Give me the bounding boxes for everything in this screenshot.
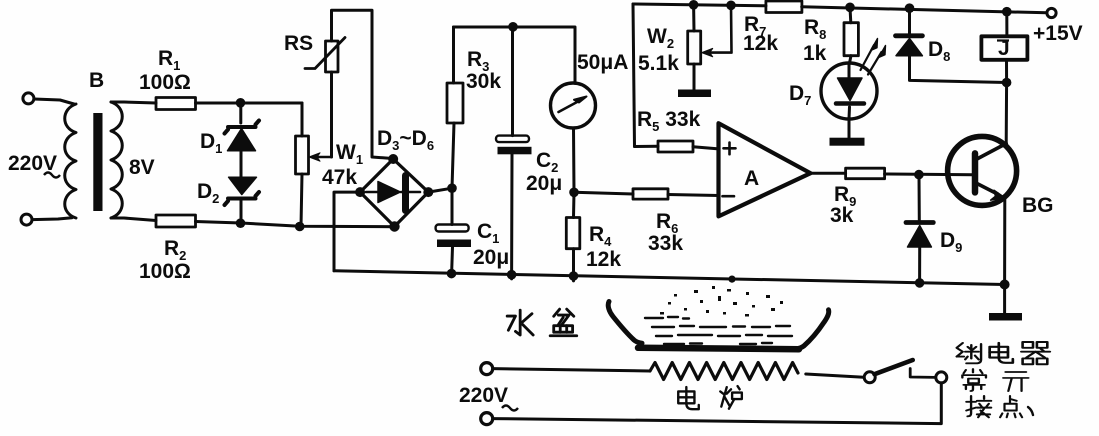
node W2 wiper top [726,1,736,11]
wire R8 to LED D7 [850,56,852,63]
comma mark [1028,407,1033,415]
opamp plus sign [724,143,736,155]
meter 50uA body [551,83,596,128]
node D9/rail [915,278,925,288]
resistor R4 [566,218,580,249]
wire W2 top lead [692,5,695,31]
W1 wiper arrow [309,153,332,161]
node W1 bottom [295,222,305,232]
terminal 220V heater bottom [481,413,493,425]
wire rail left corner down to R5 [633,4,635,147]
W2 wiper arrow [702,5,732,57]
diode D8 (cathode up) [896,36,923,56]
BG base bar [972,153,979,192]
svg-text:1k: 1k [803,42,827,65]
node R8 top [845,3,855,13]
hanzi pen (basin) [550,309,577,336]
resistor R1 [156,98,196,110]
wire secondary top to R1 [111,102,156,103]
potentiometer W1 body [296,136,309,174]
wire R4 bottom [572,249,575,281]
svg-text:BG: BG [1022,194,1054,217]
opamp minus sign [723,195,735,198]
hanzi dianr (dot) [1000,396,1022,417]
wire DC+ to C1 [451,188,454,224]
node D2 bottom [236,218,246,228]
svg-text:100Ω: 100Ω [139,260,191,283]
node meter/R4/R6 [569,188,579,198]
svg-text:5.1k: 5.1k [638,52,679,75]
svg-text:50μA: 50μA [577,51,628,74]
LED D7 body circle [821,63,877,119]
hanzi dian [990,343,1013,363]
wire C2 bottom lead [510,154,513,279]
wire bridge right corner to DC+ node [428,188,452,192]
relay contact lever [875,360,913,374]
top DC bus wire [454,27,576,83]
node C2/rail [507,270,517,280]
ground symbol D7 [830,138,865,146]
svg-text:220V: 220V [459,384,508,407]
wire rail to ground [1003,285,1006,315]
svg-text:8V: 8V [129,156,155,179]
water basin outline [608,302,829,350]
hanzi chang [962,369,986,391]
wire C1 bottom [452,247,453,277]
diode D9 (cathode up) [906,223,933,248]
svg-text:20μ: 20μ [473,246,509,269]
water surface dashes [645,317,792,344]
label 220V left [8,152,60,178]
wire opamp output to R9 [811,172,846,175]
terminal 220V top-left [23,93,34,104]
svg-text:A: A [744,167,759,190]
BG collector stroke [976,144,1006,160]
ground symbol right [989,313,1022,321]
relay contact right pole [936,372,947,383]
resistor R6 [633,189,668,199]
terminal 220V bottom-left [21,214,32,225]
wire R1 to node [196,102,303,105]
hanzi shui (water) [507,310,533,335]
wire bridge left corner to ground rail [334,192,360,271]
BG emitter stroke with arrow [976,183,1005,200]
wire [32,218,72,220]
wire emitter down to rail [1003,199,1006,285]
svg-text:33k: 33k [648,232,683,255]
hanzi dian (electric) [678,387,699,409]
relay contact left pole [864,372,875,383]
terminal 220V heater top [481,363,493,375]
LED D7 internal diode [836,64,864,119]
top +15V rail [633,4,1047,13]
svg-text:100Ω: 100Ω [139,71,191,94]
node R4/rail [569,271,579,281]
wire meter bottom [572,128,576,192]
wire R8 top lead [849,7,853,22]
node J/D8/collector [1002,78,1012,88]
wire D1 top lead [239,103,242,123]
transistor BG body circle [948,136,1017,205]
hanzi lu (furnace) [720,386,742,409]
wire heater top [493,369,650,371]
bridge internal diode [366,176,420,211]
bridge rectifier D3~D6 diamond [360,159,428,227]
wire D9 top lead [918,175,921,220]
capacitor C1 (polarized) [436,225,471,248]
resistor R9 [846,168,885,179]
relay contact fixed tick [910,369,935,378]
wire D8 top lead [908,8,911,34]
node emitter/rail [1000,280,1010,290]
wire D1-D2 [240,151,243,177]
node D8 top [905,3,915,13]
meter needle [559,97,587,113]
hanzi qi [1021,342,1050,364]
relay J coil [981,36,1027,60]
LED D7 arrows [861,39,886,75]
label jie-dian (contact) line 3 [966,396,1033,417]
heater element (electric furnace) zigzag [650,363,798,380]
potentiometer W2 body [688,31,701,64]
wire R2 to bridge bottom [196,222,398,227]
label dian-lu (electric furnace) [678,386,742,409]
resistor R7 [766,1,802,13]
wire to R4 [572,192,576,218]
svg-text:20μ: 20μ [526,172,562,195]
label J [997,37,1010,60]
wire W1 bottom [301,174,302,226]
ground symbol W2 [678,90,711,98]
ground rail (bottom bus) [334,271,1005,285]
wire R3 bottom [452,123,454,188]
resistor R5 [658,141,693,152]
wire to R5 [635,145,659,148]
wire J top [1005,12,1008,37]
terminal +15V [1047,8,1056,17]
capacitor C2 (polarized) [496,136,532,155]
svg-text:47k: 47k [322,166,357,189]
hanzi ji [957,343,981,363]
resistor R3 [447,83,463,123]
wire R6 to opamp inverting input [668,195,719,196]
wire secondary bottom to R2 [111,218,156,221]
diode D2 (zener, cathode down) [225,177,260,205]
svg-text:12k: 12k [743,32,778,55]
wire R9 to base [885,173,973,177]
node D1 top [236,98,246,108]
svg-text:3k: 3k [830,204,854,227]
svg-text:B: B [89,69,104,92]
wire RS top loop to bridge AC1 [332,10,393,158]
wire heater to switch [806,374,864,377]
wire D8 bottom to J bottom node [910,56,1007,83]
thermistor RS body [326,41,339,72]
wire R5 to opamp non-inverting input [693,147,719,149]
wire J bottom to collector [1005,60,1008,144]
node DC+ [447,183,457,193]
label shui-pen (water basin) [507,309,577,336]
hanzi jie [966,396,991,417]
svg-text:D3~D6: D3~D6 [377,127,434,153]
transformer core [93,113,102,211]
node C1/rail [447,269,457,279]
label ji-dian-qi (relay) line 1 [957,342,1050,364]
svg-text:+15V: +15V [1033,22,1083,45]
node W2 top [689,0,699,10]
svg-text:R5 33k: R5 33k [637,108,701,134]
transformer B primary winding [65,104,76,218]
wire contact down and back [493,383,941,424]
wire node to W1 top [301,103,304,136]
wire R3 top [452,27,455,83]
node base/D9 [914,170,924,180]
wire node to R6 [574,192,633,194]
hanzi kai [1003,372,1028,391]
label chang-kai (normally open) line 2 [962,369,1028,391]
svg-text:12k: 12k [586,248,621,271]
RS diagonal stroke [305,38,345,69]
wire [34,99,74,104]
op-amp A triangle [719,123,811,216]
wire C2 top lead [511,27,514,136]
svg-text:RS: RS [284,32,313,55]
wire W2 bottom [693,64,696,90]
svg-text:220V: 220V [8,152,57,175]
transformer B secondary winding [111,102,122,218]
wire D9 bottom lead [918,247,921,283]
svg-text:30k: 30k [466,70,501,93]
wire D2 bottom lead [240,199,243,223]
bridge corner nodes [355,154,433,232]
node C2 top [508,22,518,32]
resistor R2 [156,215,196,227]
wire RS bottom to wiper [330,72,333,157]
resistor R8 [844,23,858,56]
water specks [660,286,783,317]
label 220V heater [459,384,518,411]
diode D1 (zener, cathode up) [225,121,260,151]
node J top [1002,7,1012,17]
node rail mid [728,276,735,283]
wire D7 to ground [848,119,851,138]
